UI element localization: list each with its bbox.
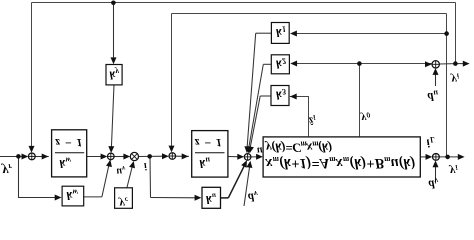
wire: outer feedback top edge (32, 2, 456, 4)
bottom gain box ku (202, 187, 221, 208)
label d_v disturbance centre (248, 189, 258, 204)
gain box k2 (271, 55, 289, 74)
wire: sum E to node to output (439, 156, 462, 158)
source box yc (115, 188, 133, 209)
wire: disturbance diagonal into sum D (244, 162, 250, 206)
wire: inner feedback top edge (172, 13, 447, 15)
multiplier junction (130, 152, 138, 160)
node: k1 tap on inner feedback (444, 31, 449, 36)
svg-text:xm (k+1)=Am xm (k)+Bm u(k): xm (k+1)=Am xm (k)+Bm u(k) (265, 155, 416, 171)
summing junction E2 (output top) (432, 61, 439, 68)
label u plant input (257, 145, 263, 156)
node: input branch (16, 154, 21, 159)
gain box k3 (271, 86, 289, 106)
wire: output arrow top loop (455, 63, 467, 65)
wire: sumA to fraction box 1 (35, 156, 49, 158)
svg-text:du: du (428, 89, 439, 104)
node: top output junction (453, 61, 458, 66)
node: after multiplier (147, 154, 152, 159)
label y0 tap (360, 111, 371, 124)
wire: node down to bottom gain box k_u (149, 157, 152, 198)
wire: disturbance arrow into sum E (435, 163, 437, 184)
wire: sum E2 right segment (439, 63, 455, 65)
wire: inner feedback left vertical into sum C (171, 14, 173, 150)
label y_r input (1, 162, 13, 178)
svg-text:iL: iL (427, 135, 435, 150)
wire: sum B to multiplier (114, 156, 128, 158)
arrowheads (22, 154, 29, 160)
gain box k1 (271, 23, 289, 44)
wire: input branch down (18, 157, 20, 198)
node: bottom output junction (445, 155, 450, 160)
label u_v (117, 164, 127, 176)
model equation line 2 (265, 155, 416, 171)
svg-text:uv: uv (117, 164, 127, 176)
svg-text:u: u (257, 145, 263, 156)
svg-text:yi: yi (450, 72, 460, 87)
wire: k1 output slant to sum D (256, 32, 272, 34)
label d_v disturbance bottom right (429, 176, 439, 191)
label y_i top output (450, 72, 460, 87)
wire: box2 to sum D (228, 156, 242, 158)
fraction box 1: kw/(z-1) (52, 130, 87, 177)
summing junction E (output bottom) (433, 154, 440, 161)
wire: bottom k_u box diagonal to sum D (221, 197, 229, 199)
svg-text:yi: yi (448, 163, 458, 178)
label iL (427, 135, 435, 150)
wire: input segment (0, 156, 26, 158)
wire: model tap vertical x=359 (359, 64, 361, 137)
wire: k2 output slant to sum D (263, 63, 271, 65)
svg-text:ẑi: ẑi (308, 113, 316, 126)
node: top edge junction (111, 1, 116, 6)
model state-space box (263, 137, 420, 177)
model equation line 1 (264, 139, 332, 154)
svg-text:dv: dv (429, 176, 439, 191)
svg-text:dv: dv (248, 189, 258, 204)
wire: small box2 output diagonal to multiplier (127, 163, 133, 188)
wire: multiplier to node, to sum C (138, 155, 166, 157)
svg-text:y(k)=Cm xm (k): y(k)=Cm xm (k) (264, 139, 332, 154)
summing junction B (108, 153, 115, 160)
wire: model box to sum E (420, 156, 430, 158)
wire: k4 output to sum B (111, 85, 114, 150)
wire: model tap horizontal to k2 and sum E2 (294, 63, 433, 65)
wire: model tap vertical x=308 to k3 (308, 97, 310, 137)
wire: sum D to model box (251, 156, 261, 158)
label y_i bottom output (448, 163, 458, 178)
svg-text:y0: y0 (360, 111, 371, 124)
summing junction C (169, 153, 176, 160)
feedforward gain box kw (62, 186, 84, 206)
wire: box1 to sum B (87, 156, 105, 158)
wire: inner feedback right vertical (446, 14, 448, 157)
wire: k1 input tap (294, 33, 447, 35)
label z-hat tap (308, 113, 316, 126)
wire: disturbance arrow into sum E2 (435, 71, 437, 87)
summing junction A (28, 153, 35, 160)
label i small (144, 160, 147, 171)
summing junction D (244, 154, 251, 161)
wire: outer feedback right vertical (455, 3, 457, 64)
wire: sum C to fraction box 2 (176, 155, 189, 157)
gain box k4 (output feedback) (106, 65, 122, 85)
wire: outer feedback left vertical (31, 3, 33, 150)
svg-text:yr: yr (1, 162, 13, 178)
node: model tap split (357, 61, 362, 66)
svg-text:z − 1: z − 1 (194, 136, 223, 150)
svg-text:i: i (144, 160, 147, 171)
wire: k3 output slant to sum D (260, 95, 271, 97)
wire: small box1 output to sum B (84, 196, 102, 198)
wire: k4 feed from top edge (113, 3, 115, 62)
fraction box 2: ku/(z-1) (192, 131, 228, 178)
label d_u disturbance top (428, 89, 439, 104)
svg-text:z − 1: z − 1 (55, 136, 84, 150)
